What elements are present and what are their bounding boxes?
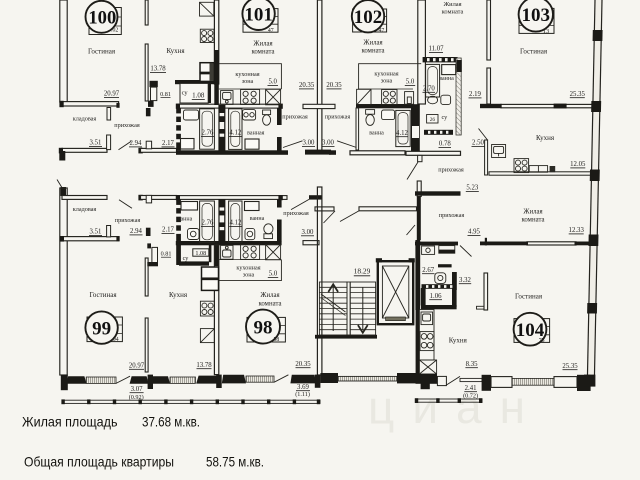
wall: apt104 kitchen/living partition — [484, 273, 488, 310]
south-east corner block — [577, 375, 591, 391]
balcony rail right ticks — [415, 398, 483, 403]
svg-text:прихожая: прихожая — [282, 114, 308, 121]
103-su small box fixture — [427, 115, 438, 124]
wall: bathroom center divider 100|101 — [218, 105, 225, 152]
cap right bathroom row — [278, 104, 282, 109]
apt104 kitchen sink — [421, 312, 433, 325]
apt98 kitchen sink cabinet — [221, 245, 233, 259]
svg-text:зона: зона — [242, 78, 254, 85]
lintel beam over prihozhaya 101/102 — [303, 104, 335, 108]
apt103 kitchen sink — [492, 145, 506, 158]
apt104 small hatch bar — [438, 264, 452, 267]
wall: 103 living south open mid — [501, 104, 593, 107]
wall block on hatched pier — [457, 60, 462, 72]
apt98 crossed box lower (single diagonal) — [200, 329, 214, 343]
svg-text:3.51: 3.51 — [90, 140, 102, 147]
stair down arrowhead — [357, 325, 368, 335]
bath 2.70 cupboard — [442, 65, 456, 75]
apt98 kitchen-zone outline — [219, 260, 282, 281]
notches on su bar — [428, 131, 430, 134]
stair break diagonal 2 — [321, 298, 346, 316]
svg-text:комната: комната — [442, 9, 464, 16]
lift shaft corner notch left — [376, 258, 382, 262]
svg-text:су: су — [183, 255, 190, 262]
bath 2.70 bathtub — [426, 64, 440, 97]
cap left corridor north — [59, 148, 63, 154]
wall: 103 kitchen west — [485, 140, 488, 175]
svg-text:2.17: 2.17 — [162, 227, 174, 234]
wall: corridor north 329-336 — [329, 150, 336, 155]
wall: corridor north east segment — [406, 151, 461, 155]
svg-text:13.78: 13.78 — [150, 66, 166, 73]
slots in 99|98 divider — [220, 207, 225, 210]
wall: bathroom row right upper — [277, 108, 282, 125]
wall: 103 hall west mid (open) — [417, 181, 421, 197]
apt104 washing machine — [422, 246, 435, 254]
wall: apt102 bathroom right (thick) — [411, 104, 420, 152]
wall: 103 living south black mid — [554, 104, 567, 109]
window apt99 kitchen — [170, 377, 195, 383]
door frame su apt99: top black — [147, 243, 151, 248]
south wall piece right of stair window — [397, 373, 418, 383]
door frame su apt99: bottom black — [147, 262, 158, 266]
svg-text:103: 103 — [522, 5, 551, 26]
door jamb apt99 storage — [107, 226, 111, 237]
balcony door diagonal apt99 — [116, 376, 130, 383]
svg-text:2.94: 2.94 — [130, 228, 142, 235]
apt98 side stove — [200, 301, 214, 316]
wall: corridor north under bathrooms — [176, 150, 288, 155]
wall: apt104 west lower — [416, 310, 419, 374]
notches on apt104 bar — [426, 285, 428, 288]
svg-text:кухонная: кухонная — [374, 71, 398, 78]
svg-text:5.0: 5.0 — [269, 271, 278, 278]
apt100 fridge shadow — [210, 63, 214, 80]
svg-text:зона: зона — [381, 78, 393, 85]
door gap in apt102 bathroom right wall — [412, 126, 419, 138]
wall: corridor 103 hall south — [415, 191, 461, 195]
wall: corridor north, left segment — [62, 148, 107, 152]
svg-text:прихожая: прихожая — [439, 212, 465, 219]
slots in bathroom divider — [220, 113, 225, 116]
cap right of storage wall bottom — [116, 236, 119, 241]
stair up arrow stem — [332, 286, 334, 331]
apartment stamp 101 — [242, 0, 278, 34]
svg-text:кладовая: кладовая — [73, 116, 97, 123]
svg-text:20.35: 20.35 — [295, 361, 311, 368]
svg-text:13: 13 — [543, 28, 549, 35]
door swing stair hall west — [324, 211, 336, 223]
lintel beam bottom 98|stairwell — [315, 207, 334, 211]
wall: apartment boundary 101|102 — [317, 0, 322, 151]
svg-text:3.00: 3.00 — [303, 140, 315, 147]
apt103 counter dark block — [550, 166, 556, 172]
tick: apt104 north wall stub — [485, 238, 487, 246]
stairwell south wall piece — [320, 373, 338, 383]
svg-text:11.07: 11.07 — [428, 46, 444, 53]
east wall pilaster 2 — [591, 101, 601, 112]
wall: apt104 closet bottom — [421, 305, 457, 309]
svg-text:20.97: 20.97 — [129, 362, 145, 369]
wall: bathroom row right apt98 lower — [277, 220, 282, 242]
apt101 kitchen-zone outline — [219, 64, 282, 89]
svg-text:Общая площадь квартиры: Общая площадь квартиры — [24, 454, 174, 470]
wall: corridor 5.23 hall north beam — [359, 207, 417, 211]
apt98 bathtub — [229, 201, 242, 242]
door swing apt101 entry — [283, 141, 303, 148]
wall: 103 bedroom south open mid — [527, 242, 576, 245]
svg-text:101: 101 — [244, 5, 273, 26]
white post on corridor wall bottom — [146, 195, 151, 203]
window sill block 5 — [222, 375, 246, 384]
wall: left exterior, apartment 100 — [60, 0, 67, 102]
svg-text:98: 98 — [254, 317, 273, 338]
wall: boundary 98|stairwell — [317, 187, 322, 375]
wall: apt104 closet west — [421, 288, 426, 306]
wall: corridor south 309-322 — [309, 195, 322, 199]
apt101 crossed cabinet — [266, 89, 281, 105]
apt102 kitchen-zone outline — [359, 64, 422, 89]
wall: storage stub — [107, 108, 111, 121]
wall: 103 bedroom south black right — [575, 242, 594, 246]
svg-text:Жилая: Жилая — [523, 209, 542, 216]
svg-text:20.35: 20.35 — [326, 82, 342, 89]
svg-text:3.00: 3.00 — [302, 229, 314, 236]
door pocket bar apt99 su — [209, 244, 212, 263]
balcony rail right (apt104) — [415, 399, 482, 402]
svg-text:.02: .02 — [111, 27, 118, 33]
wall: 103 kitchen south — [489, 172, 598, 175]
apt102 stove — [382, 90, 397, 105]
apt100 stove — [200, 29, 214, 42]
svg-text:(0.72): (0.72) — [463, 392, 478, 399]
svg-text:5.0: 5.0 — [406, 79, 415, 86]
wall: 103 living south black left — [480, 104, 502, 108]
svg-text:1.08: 1.08 — [195, 250, 206, 257]
wall: room 11.07 bottom hatched bar — [423, 57, 458, 62]
apt98 fridge boxes — [202, 267, 219, 290]
svg-text:ванна: ванна — [250, 216, 265, 222]
wall: bathroom row top (open bar) — [177, 104, 281, 108]
svg-text:ванная: ванная — [247, 130, 265, 136]
cap left of storage wall bottom — [60, 236, 64, 242]
wall: bathroom row bottom (apts 99/98) — [176, 241, 282, 245]
dim 1.08 boxed bottom — [193, 249, 209, 256]
apt98 counter bottom line — [219, 259, 282, 261]
svg-text:су: су — [442, 114, 449, 121]
svg-text:Жилая: Жилая — [443, 1, 461, 8]
apartment stamp 103 — [519, 0, 554, 35]
apt104 bath shelf — [439, 246, 455, 254]
wall: corridor T-bar at 101|102 — [305, 150, 331, 155]
south post C — [315, 375, 321, 388]
svg-text:Жилая: Жилая — [253, 41, 272, 48]
white post on corridor wall top — [146, 141, 151, 149]
stair up arrowhead — [328, 283, 339, 293]
stair central stringer — [347, 282, 350, 335]
wall: apt104 bathroom east — [452, 272, 457, 290]
svg-text:20.97: 20.97 — [104, 91, 120, 98]
wall: boundary 102-bedroom | 103 lower — [487, 68, 491, 104]
apt101 bathtub — [229, 109, 242, 150]
svg-text:Гостиная: Гостиная — [89, 291, 117, 299]
svg-text:4.12: 4.12 — [229, 130, 241, 137]
wall: bathroom row left (checkered) — [176, 108, 181, 150]
svg-text:3.32: 3.32 — [459, 277, 471, 284]
wall: hatched pier right of bath 2.70 — [456, 58, 461, 135]
door swing corridor to 103 hall — [407, 162, 418, 180]
door leaf su apt99 — [152, 247, 158, 265]
wall: apt100 storage top (open bar) — [61, 102, 119, 106]
south post E — [482, 375, 491, 391]
wall: boundary 102-bedroom | 103 upper — [487, 0, 491, 60]
balcony rail left (apts 99/98) — [62, 400, 320, 403]
svg-text:100: 100 — [88, 7, 116, 28]
wall: apt99 su bottom — [179, 261, 209, 265]
apt104 kitchen counter column — [419, 310, 434, 360]
svg-text:Кухня: Кухня — [536, 134, 555, 142]
door swing apt100 entry — [119, 141, 132, 149]
tick: apt104 kitchen north — [477, 306, 485, 309]
svg-text:Кухня: Кухня — [449, 336, 468, 344]
wall: bathroom row right lower — [277, 137, 282, 151]
svg-text:58: 58 — [274, 337, 280, 343]
lift shaft corner notch right — [409, 258, 415, 262]
svg-text:Гостиная: Гостиная — [88, 48, 116, 56]
apt104 stove — [420, 332, 434, 351]
apt103 counter box — [529, 166, 547, 173]
east exterior wall group (skewed like scan) — [586, 0, 603, 375]
svg-text:58.75 м.кв.: 58.75 м.кв. — [206, 454, 264, 470]
door jamb corridor/103 hall — [418, 155, 422, 161]
window sill block 3 — [151, 376, 170, 384]
apt104 bath shelf dark half — [439, 250, 455, 254]
svg-text:25.35: 25.35 — [570, 91, 586, 98]
svg-text:комната: комната — [258, 301, 281, 308]
apt98 stove — [241, 244, 260, 259]
svg-text:2.67: 2.67 — [422, 267, 434, 274]
svg-text:ванна: ванна — [369, 130, 384, 136]
svg-text:прихожая: прихожая — [438, 166, 464, 173]
svg-text:Кухня: Кухня — [166, 47, 185, 55]
svg-text:94: 94 — [113, 337, 119, 343]
svg-text:кухонная: кухонная — [236, 265, 260, 272]
svg-text:12.05: 12.05 — [570, 161, 586, 168]
east wall pilaster 1 — [593, 30, 603, 41]
svg-text:3.07: 3.07 — [131, 386, 143, 393]
wall: apt100 kitchen east lower black — [214, 50, 219, 105]
svg-text:2.41: 2.41 — [465, 385, 477, 392]
apt100 fridge boxes — [200, 63, 214, 82]
wall block left end of corridor north — [59, 151, 65, 161]
apartment stamp 100 — [86, 1, 122, 35]
white sill apt104 left — [491, 377, 512, 388]
wall: bathroom row right apt98 upper — [277, 200, 282, 208]
svg-text:26: 26 — [430, 117, 436, 123]
wall: apt102 bathroom left — [356, 108, 359, 150]
apt102 counter top line — [359, 88, 413, 90]
thin wall line under partition — [460, 378, 482, 381]
svg-text:Гостиная: Гостиная — [520, 48, 548, 56]
svg-text:4.12: 4.12 — [230, 220, 242, 227]
lift shaft outer wall — [378, 261, 413, 324]
svg-text:102: 102 — [354, 7, 383, 28]
apt98 washbasin — [245, 228, 255, 239]
svg-text:0.81: 0.81 — [160, 91, 171, 98]
apt102 crossed cabinet (single diagonal) — [357, 89, 371, 105]
wall: apt99 kitchen divider upper — [145, 258, 148, 296]
svg-text:прихожая: прихожая — [115, 217, 141, 224]
apt102 kitchen cabinet — [405, 92, 414, 105]
svg-text:(1.11): (1.11) — [295, 391, 310, 398]
svg-text:75: 75 — [539, 338, 545, 344]
svg-text:кладовая: кладовая — [73, 206, 97, 213]
wall chunk kitchen98 top — [214, 246, 219, 267]
svg-text:37.68 м.кв.: 37.68 м.кв. — [142, 414, 200, 430]
door frame su apt100: top black — [150, 81, 158, 87]
door swing apt99 entry — [119, 200, 132, 209]
apt98 bath cabinet — [245, 202, 260, 211]
svg-text:Гостиная: Гостиная — [515, 292, 543, 300]
svg-text:комната: комната — [251, 49, 274, 56]
svg-text:Кухня: Кухня — [169, 291, 188, 299]
svg-text:2.76: 2.76 — [202, 220, 214, 227]
apt102 washbasin — [382, 110, 395, 120]
svg-text:кухонная: кухонная — [235, 71, 259, 78]
wall: left exterior, apt 99 — [60, 188, 67, 375]
cap left bathroom row — [176, 104, 180, 109]
south-east corner block upper — [584, 375, 595, 387]
stairwell balcony window — [338, 376, 397, 381]
su room box apt100 — [180, 83, 208, 103]
svg-text:2.94: 2.94 — [130, 140, 142, 147]
stair treads right flight — [350, 287, 375, 329]
door leaf su apt100 — [151, 87, 157, 101]
apt101 bath cabinet — [245, 139, 259, 149]
window apt104 living — [512, 378, 554, 385]
apartment stamp 102 — [352, 0, 387, 34]
wall: stairwell bottom — [315, 335, 377, 339]
wall: apt99 kitchen divider lower — [145, 318, 148, 372]
wall: apt104 closet east — [452, 290, 457, 307]
south post A — [148, 375, 153, 389]
balcony rail left ticks — [61, 399, 320, 404]
east exterior wall: outer line — [594, 0, 602, 375]
svg-text:2.76: 2.76 — [202, 130, 214, 137]
svg-text:0.78: 0.78 — [439, 141, 451, 148]
window sill block 4 — [196, 376, 218, 384]
corner tick top-left of apt99 — [57, 180, 63, 189]
wall: corridor south, mid-left segment — [141, 196, 177, 200]
white sill apt104 right — [554, 377, 577, 388]
door stub below wall apt100 — [146, 108, 151, 116]
svg-text:25.35: 25.35 — [562, 363, 578, 370]
svg-text:Жилая: Жилая — [363, 40, 382, 47]
svg-text:2.19: 2.19 — [469, 91, 481, 98]
window apt98 — [246, 376, 274, 382]
window sill block 2 — [130, 376, 149, 384]
svg-text:Жилая: Жилая — [260, 292, 279, 299]
svg-text:47: 47 — [379, 28, 385, 34]
svg-text:20.35: 20.35 — [299, 82, 315, 89]
apt102 toilet — [366, 110, 375, 126]
apartment stamp 104 — [514, 313, 550, 346]
wall: 103 su hatched south bar — [424, 130, 453, 135]
door swing apt104 north — [460, 246, 472, 257]
door stub apt99 storage — [146, 228, 151, 236]
apt104 crossed cabinet bottom — [419, 360, 436, 374]
door swing apt104 entry — [407, 225, 416, 235]
svg-text:прихожая: прихожая — [283, 210, 309, 217]
wall: apt98 kitchen west column — [214, 245, 218, 375]
svg-text:5.23: 5.23 — [466, 185, 478, 192]
svg-text:(0.92): (0.92) — [129, 394, 144, 401]
wall: bathroom center divider 99|98 — [218, 199, 225, 242]
apt102 bathtub — [396, 110, 410, 146]
svg-text:2.50: 2.50 — [472, 140, 484, 147]
svg-text:ванна: ванна — [178, 216, 193, 222]
apt99 bath cabinet — [181, 202, 198, 211]
door swing apt98 entry — [291, 199, 309, 209]
south post D — [421, 375, 430, 390]
window sill block 6 — [290, 375, 316, 384]
cap left of corridor mid segment — [138, 148, 142, 154]
wall block left end of corridor south — [61, 187, 67, 196]
svg-text:5.0: 5.0 — [268, 79, 277, 86]
svg-text:99: 99 — [92, 318, 111, 339]
lintel bar at 98 bathroom south wall — [303, 241, 319, 245]
lift cabin with cross — [382, 266, 408, 318]
cap right of storage wall — [116, 103, 119, 108]
apt100 kitchen crossed box — [200, 2, 214, 16]
door jamb apt99 entry — [107, 135, 111, 150]
svg-text:18.29: 18.29 — [354, 267, 371, 276]
svg-text:прихожая: прихожая — [114, 122, 140, 129]
cap right — [278, 195, 282, 200]
apt101 toilet — [263, 110, 271, 125]
wall: apt104 bathroom hatched south bar — [422, 284, 455, 289]
stair break diagonal — [321, 294, 346, 312]
svg-text:2.70: 2.70 — [423, 85, 435, 92]
white sill apt104 kitchen — [437, 376, 446, 385]
south corner post left — [61, 375, 68, 391]
east wall pilaster 5 — [587, 303, 597, 314]
svg-text:2.17: 2.17 — [162, 140, 174, 147]
balcony door diagonal apt98 — [274, 375, 288, 382]
apt101 stove — [241, 90, 260, 105]
svg-text:циан: циан — [368, 381, 543, 433]
east exterior wall: inner line — [587, 0, 595, 375]
wall: corridor south, left segment — [62, 196, 107, 200]
wall: 103 hall west lower — [417, 197, 421, 241]
apt103 stove — [514, 159, 529, 173]
apt100 bath cabinet — [181, 139, 195, 150]
svg-text:комната: комната — [521, 217, 544, 224]
apt99 washbasin — [188, 229, 200, 240]
wall: su top (apt100) — [175, 80, 219, 84]
window apt99 living — [86, 377, 116, 383]
apt101 kitchen sink cabinet — [221, 91, 233, 105]
window sill block 1 — [66, 376, 87, 384]
svg-text:3.51: 3.51 — [90, 229, 102, 236]
wall: corridor south under bathrooms (open bar) — [177, 196, 287, 200]
svg-text:зона: зона — [243, 272, 255, 279]
svg-text:12.33: 12.33 — [569, 227, 585, 234]
svg-text:13.78: 13.78 — [196, 362, 212, 369]
wall: apartment boundary 100|101 — [214, 0, 218, 84]
stair down arrow stem — [362, 287, 364, 330]
apt98 toilet — [264, 224, 273, 239]
